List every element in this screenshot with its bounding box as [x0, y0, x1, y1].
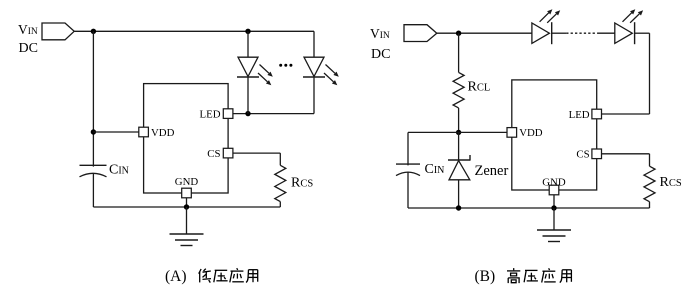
pin LED B — [592, 109, 602, 119]
label caption hanzi Yong A — [246, 270, 258, 283]
label LED1 arrows B — [540, 9, 561, 23]
wire to LED pin B — [602, 113, 650, 115]
svg-text:DC: DC — [371, 47, 390, 62]
ground symbol B — [537, 230, 571, 242]
wire RCL bottom B — [458, 108, 460, 132]
label caption B — [475, 268, 496, 285]
label GND pin A — [175, 176, 199, 188]
svg-text:(B): (B) — [475, 268, 496, 285]
pin VDD B — [507, 128, 517, 138]
wire GND pin drop B — [553, 195, 555, 208]
svg-text:CS: CS — [576, 149, 589, 161]
svg-text:CIN: CIN — [425, 162, 445, 177]
pin CS A — [223, 148, 233, 158]
label DC A — [19, 41, 38, 56]
diode Zener D1 B — [448, 155, 470, 180]
wire ground rail A — [93, 206, 280, 208]
wire LED pin to branches A — [233, 113, 314, 115]
wire ground stem A — [186, 207, 188, 234]
label caption hanzi Gao B — [507, 268, 520, 283]
svg-text:CS: CS — [207, 148, 220, 160]
node VIN input connector A — [42, 23, 74, 40]
label VDD pin B — [519, 127, 543, 139]
wire LED1 to dashes B — [552, 32, 566, 34]
wire LED1 anode A — [247, 31, 249, 57]
wire RCL top B — [458, 33, 460, 72]
diode LED1 B — [532, 22, 552, 44]
pin VDD A — [139, 127, 149, 137]
junction VDD node A — [91, 129, 96, 134]
wire right column down B — [649, 33, 651, 114]
wire left vertical A lower — [92, 173, 94, 207]
wire zener bottom B — [458, 180, 460, 208]
pin LED A — [223, 109, 233, 119]
label CIN A — [109, 163, 129, 178]
diode LED2 B — [615, 22, 635, 44]
wire VDD feed A — [93, 131, 138, 133]
wire top rail B — [437, 32, 532, 34]
label caption hanzi Yong B — [560, 270, 572, 283]
svg-text:LED: LED — [569, 109, 590, 121]
svg-text:RCS: RCS — [660, 175, 682, 190]
wire LED2 to right column B — [635, 32, 650, 34]
label caption hanzi Di A — [199, 269, 211, 283]
wire top rail A — [74, 30, 314, 32]
pin GND A — [182, 188, 192, 198]
label caption hanzi Ya B — [524, 270, 538, 282]
capacitor CIN A — [80, 165, 107, 177]
wire ground rail B — [408, 207, 650, 209]
label VIN A — [18, 22, 38, 37]
wire ground stem B — [553, 208, 555, 230]
wire GND pin drop A — [186, 198, 188, 207]
label CIN B — [425, 162, 445, 177]
diode LED1 A — [237, 57, 259, 77]
diode LED2 A — [303, 57, 325, 77]
svg-text:GND: GND — [542, 176, 566, 188]
junction ground node A — [184, 204, 189, 209]
label VDD pin A — [151, 127, 175, 139]
svg-text:LED: LED — [200, 108, 221, 120]
wire dashed LED string B — [566, 32, 597, 34]
svg-text:VDD: VDD — [519, 127, 543, 139]
label caption hanzi Ying A — [230, 268, 244, 282]
wire LED1 cathode A — [247, 77, 249, 114]
wire LED2 cathode A — [313, 77, 315, 114]
ground symbol A — [170, 234, 204, 246]
label LED1 arrows A — [258, 65, 273, 86]
wire left vertical A upper — [92, 31, 94, 166]
label caption hanzi Ying B — [542, 268, 556, 282]
junction LED branch top A — [245, 29, 250, 34]
resistor RCL B — [453, 72, 464, 108]
junction VDD node B — [456, 130, 461, 135]
node VIN input connector B — [404, 25, 437, 42]
wire VDD feed B — [459, 131, 507, 133]
op-amp U2 IC body B — [512, 80, 597, 190]
svg-text:VDD: VDD — [151, 127, 175, 139]
resistor RCS A — [275, 165, 286, 201]
label LED pin B — [569, 109, 590, 121]
label caption hanzi Ya A — [214, 270, 228, 282]
label CS pin B — [576, 149, 589, 161]
resistor RCS B — [644, 166, 655, 202]
svg-text:Zener: Zener — [475, 163, 509, 179]
label GND pin B — [542, 176, 566, 188]
svg-text:CIN: CIN — [109, 163, 129, 178]
svg-text:RCS: RCS — [291, 176, 313, 191]
wire cap to rail B — [407, 172, 409, 208]
junction input node A — [91, 29, 96, 34]
wire RCS bottom B — [649, 202, 651, 208]
label DC B — [371, 47, 390, 62]
label Zener B — [475, 163, 509, 179]
junction LED return A — [245, 111, 250, 116]
svg-text:(A): (A) — [165, 268, 187, 285]
label LED pin A — [200, 108, 221, 120]
svg-text:DC: DC — [19, 41, 38, 56]
svg-text:VIN: VIN — [370, 26, 390, 41]
label RCS B — [660, 175, 682, 190]
label RCL B — [468, 80, 491, 95]
label ellipsis dots A — [279, 64, 292, 67]
label CS pin A — [207, 148, 220, 160]
svg-text:VIN: VIN — [18, 22, 38, 37]
wire VDD node to cap B — [408, 132, 459, 165]
junction input node B — [456, 31, 461, 36]
pin CS B — [592, 149, 602, 159]
label VIN B — [370, 26, 390, 41]
wire CS to RCS B — [602, 154, 650, 166]
wire zener top B — [458, 132, 460, 160]
junction cap-zener ground node B — [456, 205, 461, 210]
pin GND B — [549, 185, 559, 195]
label LED2 arrows B — [623, 9, 644, 23]
svg-text:GND: GND — [175, 176, 199, 188]
wire RCS bottom A — [279, 202, 281, 207]
junction ground node B — [551, 205, 556, 210]
wire dashes to LED2 B — [597, 32, 614, 34]
capacitor CIN B — [396, 164, 420, 176]
op-amp U1 IC body A — [144, 84, 229, 193]
label caption A — [165, 268, 187, 285]
label LED2 arrows A — [324, 65, 339, 86]
wire LED2 anode A — [313, 31, 315, 57]
label RCS A — [291, 176, 313, 191]
wire CS to RCS A — [233, 153, 280, 165]
svg-text:RCL: RCL — [468, 80, 491, 95]
